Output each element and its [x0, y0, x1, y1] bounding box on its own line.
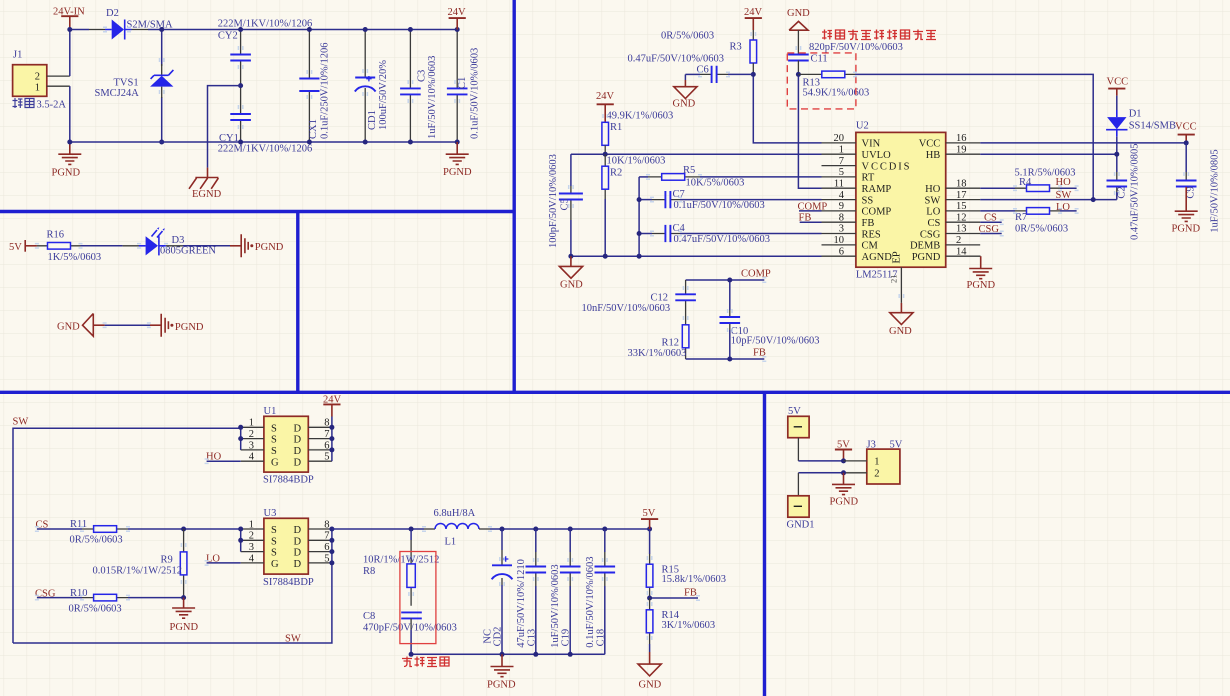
svg-text:CSG: CSG	[920, 229, 941, 240]
svg-text:5V: 5V	[9, 242, 22, 253]
junction J3 pin1	[841, 458, 846, 463]
junction dots rail/TVS	[159, 27, 164, 32]
svg-text:D1: D1	[1129, 109, 1142, 120]
resistor R8 (snubber)	[363, 529, 439, 606]
wire CS pin12	[980, 221, 1002, 223]
svg-text:100uF/50V/20%: 100uF/50V/20%	[378, 60, 389, 130]
svg-text:HO: HO	[925, 184, 941, 195]
svg-text:S: S	[271, 423, 277, 434]
wire COMP pin9	[799, 210, 822, 212]
svg-text:D: D	[294, 457, 302, 468]
svg-text:PGND: PGND	[1172, 223, 1201, 234]
TVS diode TVS1	[95, 64, 174, 99]
svg-text:C3: C3	[417, 70, 428, 82]
wire R13 to SW	[855, 74, 1093, 199]
svg-text:FB: FB	[684, 588, 697, 599]
power port 24V (U1)	[323, 394, 342, 416]
capacitor C8 (snubber)	[363, 611, 457, 654]
wire GND to PGND	[105, 324, 150, 326]
svg-text:0.1uF/50V/10%/0603: 0.1uF/50V/10%/0603	[674, 200, 765, 211]
svg-text:15.8k/1%/0603: 15.8k/1%/0603	[662, 574, 726, 585]
capacitor C18	[585, 529, 615, 654]
ground EGND	[189, 168, 222, 201]
mosfet U3 SI7884BDP	[241, 508, 332, 588]
svg-text:GND: GND	[787, 8, 810, 19]
svg-text:U2: U2	[856, 121, 869, 132]
svg-text:U1: U1	[264, 406, 277, 417]
ground PGND (pin14)	[967, 256, 996, 291]
svg-text:VCC: VCC	[919, 139, 941, 150]
svg-text:2: 2	[249, 429, 254, 440]
wire 24V-IN rail top	[70, 29, 89, 31]
ground PGND (J3)	[830, 473, 859, 508]
wire HB rail pin19	[980, 153, 1117, 155]
svg-text:SS: SS	[862, 195, 874, 206]
ground PGND (output)	[487, 654, 516, 690]
capacitor C7	[639, 189, 821, 211]
svg-text:470pF/50V/10%/0603: 470pF/50V/10%/0603	[363, 623, 457, 634]
svg-text:24V: 24V	[744, 7, 763, 18]
wire output gnd rail	[411, 653, 605, 655]
svg-text:3: 3	[249, 542, 254, 553]
svg-text:PGND: PGND	[255, 242, 284, 253]
svg-text:10nF/50V/10%/0603: 10nF/50V/10%/0603	[582, 303, 671, 314]
resistor R11	[37, 519, 241, 546]
capacitor CX1	[299, 30, 330, 143]
mosfet U1 SI7884BDP	[241, 406, 332, 486]
svg-text:17: 17	[956, 190, 967, 201]
svg-text:SW: SW	[1056, 190, 1072, 201]
svg-text:TVS1: TVS1	[114, 77, 139, 88]
svg-text:GND: GND	[889, 326, 912, 337]
svg-text:J3: J3	[867, 439, 876, 450]
svg-text:R11: R11	[70, 519, 87, 530]
svg-text:CM: CM	[862, 241, 879, 252]
power port 24V-IN	[53, 7, 85, 30]
svg-text:9: 9	[839, 201, 844, 212]
capacitor C10	[720, 280, 820, 359]
junction R9/R10	[181, 595, 186, 600]
svg-text:SW: SW	[925, 195, 941, 206]
svg-text:S2M/SMA: S2M/SMA	[127, 19, 174, 30]
junction SW/R13	[1091, 197, 1096, 202]
capacitor C2	[1107, 143, 1141, 240]
junction FB divider	[647, 596, 652, 601]
junction at J1 ground	[67, 140, 72, 145]
svg-text:C4: C4	[673, 223, 686, 234]
svg-text:C7: C7	[673, 189, 685, 200]
wire U3 right bus	[331, 529, 333, 563]
junction dots filter caps	[307, 27, 312, 32]
svg-text:SI7884BDP: SI7884BDP	[263, 475, 314, 486]
svg-text:SW: SW	[13, 416, 29, 427]
wire bottom rail	[70, 141, 457, 143]
resistor R10	[37, 588, 184, 615]
capacitor C19	[550, 529, 580, 654]
svg-text:4: 4	[249, 452, 255, 463]
svg-text:13: 13	[956, 224, 967, 235]
svg-text:GND: GND	[560, 280, 583, 291]
svg-text:15: 15	[956, 201, 967, 212]
svg-text:VCC: VCC	[1107, 77, 1129, 88]
svg-text:4: 4	[249, 553, 255, 564]
capacitor C3	[400, 30, 438, 143]
junction dots AGND rail	[568, 254, 573, 259]
resistor R1	[602, 110, 673, 154]
wire VCC rail pin16	[980, 142, 1186, 144]
svg-text:24V: 24V	[596, 91, 615, 102]
svg-text:7: 7	[324, 531, 329, 542]
capacitor CD2 (polarized, NC)	[482, 529, 512, 654]
svg-text:0.015R/1%/1W/2512: 0.015R/1%/1W/2512	[93, 565, 183, 576]
svg-text:CD1: CD1	[367, 110, 378, 130]
power port 24V (filter)	[448, 7, 467, 29]
svg-text:RT: RT	[862, 173, 875, 184]
svg-text:G: G	[271, 457, 279, 468]
svg-text:PGND: PGND	[175, 322, 204, 333]
svg-text:10K/5%/0603: 10K/5%/0603	[686, 178, 745, 189]
svg-text:6: 6	[324, 542, 329, 553]
svg-text:LO: LO	[926, 207, 940, 218]
svg-text:0R/5%/0603: 0R/5%/0603	[70, 535, 123, 546]
svg-text:GND: GND	[639, 679, 662, 690]
power port VCC (D1 top)	[1107, 77, 1129, 111]
svg-text:4: 4	[839, 190, 845, 201]
svg-text:5: 5	[324, 553, 329, 564]
svg-text:UVLO: UVLO	[862, 150, 892, 161]
svg-text:0R/5%/0603: 0R/5%/0603	[69, 603, 122, 614]
resistor R2	[602, 154, 666, 256]
test point GND1	[787, 473, 815, 531]
svg-text:C12: C12	[651, 293, 669, 304]
annotation 斜坡电阻和斜坡电容	[822, 30, 936, 40]
wire TP5V to J3 pin1	[798, 460, 843, 462]
diode D1	[1106, 109, 1176, 137]
svg-text:3: 3	[249, 440, 254, 451]
svg-text:0R/5%/0603: 0R/5%/0603	[1015, 223, 1068, 234]
svg-text:R16: R16	[47, 230, 65, 241]
svg-text:D3: D3	[172, 235, 185, 246]
power port GND (C6)	[673, 74, 698, 109]
svg-text:CSG: CSG	[979, 224, 1000, 235]
capacitor C5	[548, 154, 583, 256]
connector J3	[844, 439, 903, 484]
svg-text:S: S	[271, 525, 277, 536]
wire UVLO row	[571, 153, 822, 155]
wire FB pin8	[800, 221, 822, 223]
capacitor CY2	[218, 19, 313, 86]
svg-text:19: 19	[956, 144, 967, 155]
svg-text:1: 1	[839, 144, 844, 155]
svg-text:EP: EP	[892, 251, 903, 263]
wire J1 pin2 up	[69, 30, 71, 77]
wire U1 right bus	[331, 417, 333, 462]
svg-text:R2: R2	[610, 167, 622, 178]
svg-text:PGND: PGND	[912, 252, 941, 263]
svg-text:PGND: PGND	[170, 622, 199, 633]
wire D1 to HB/C2	[1116, 137, 1118, 172]
svg-text:CS: CS	[927, 218, 940, 229]
svg-text:3K/1%/0603: 3K/1%/0603	[662, 620, 716, 631]
power port 5V (output)	[641, 508, 658, 529]
svg-text:SMCJ24A: SMCJ24A	[95, 88, 140, 99]
svg-text:R1: R1	[610, 122, 622, 133]
svg-text:GND: GND	[673, 98, 696, 109]
svg-text:C6: C6	[697, 65, 709, 76]
svg-text:0.1uF/50V/10%/0603: 0.1uF/50V/10%/0603	[469, 48, 480, 139]
svg-text:3: 3	[839, 224, 844, 235]
power port 5V (LED)	[9, 240, 37, 253]
wire to EGND	[208, 86, 241, 168]
svg-text:SI7884BDP: SI7884BDP	[263, 577, 314, 588]
wire SW rail pin17	[980, 199, 1117, 201]
ground PGND (filter)	[443, 142, 472, 178]
junction dots COMP subnet	[727, 278, 732, 283]
capacitor C4	[639, 223, 821, 245]
svg-text:COMP: COMP	[741, 269, 771, 280]
svg-text:5V: 5V	[643, 508, 656, 519]
wire TPGND1 to J3 pin2	[798, 472, 843, 474]
svg-text:21: 21	[889, 275, 899, 284]
svg-text:HO: HO	[1056, 177, 1072, 188]
wire RAMP column	[798, 74, 821, 188]
wire output rail (SW node to 5V)	[332, 528, 424, 530]
port GND (arrow)	[57, 314, 105, 337]
power port GND (C11 top)	[787, 8, 810, 54]
svg-text:7: 7	[324, 429, 329, 440]
svg-text:CS: CS	[984, 213, 997, 224]
svg-text:D: D	[294, 446, 302, 457]
svg-text:GND: GND	[57, 322, 80, 333]
svg-text:1: 1	[249, 418, 254, 429]
svg-text:S: S	[271, 435, 277, 446]
svg-text:CY2: CY2	[218, 31, 238, 42]
svg-text:1: 1	[874, 457, 879, 468]
svg-text:U3: U3	[264, 508, 277, 519]
svg-text:G: G	[271, 559, 279, 570]
svg-text:SW: SW	[285, 634, 301, 645]
svg-text:C18: C18	[595, 629, 606, 647]
svg-text:PGND: PGND	[443, 167, 472, 178]
svg-text:1: 1	[35, 82, 40, 93]
svg-text:2: 2	[874, 469, 879, 480]
svg-text:6.8uH/8A: 6.8uH/8A	[434, 508, 476, 519]
wire LO to U3 gate	[207, 562, 241, 564]
svg-text:RES: RES	[862, 229, 881, 240]
svg-text:8: 8	[324, 519, 329, 530]
svg-text:L1: L1	[445, 537, 457, 548]
svg-text:R9: R9	[161, 555, 173, 566]
svg-text:S: S	[271, 548, 277, 559]
junction R1/R2	[603, 152, 608, 157]
ground PGND (C9)	[1172, 187, 1201, 234]
power port PGND (GND row)	[150, 314, 204, 337]
capacitor CD1 (polarized)	[355, 30, 389, 143]
wire L1 to 5V rail	[490, 528, 650, 530]
svg-text:20: 20	[834, 133, 845, 144]
svg-text:10R/1%/1W/2512: 10R/1%/1W/2512	[363, 554, 439, 565]
test point 5V	[788, 406, 809, 461]
capacitor C9	[1176, 143, 1221, 233]
svg-text:10pF/50V/10%/0603: 10pF/50V/10%/0603	[731, 336, 820, 347]
junction R9 top	[181, 527, 186, 532]
svg-text:C19: C19	[561, 629, 572, 647]
svg-text:VCC: VCC	[1175, 121, 1197, 132]
svg-text:5: 5	[324, 452, 329, 463]
svg-text:FB: FB	[862, 218, 875, 229]
svg-text:D: D	[294, 536, 302, 547]
svg-text:DEMB: DEMB	[910, 241, 940, 252]
power port GND (divider)	[638, 644, 662, 690]
power port GND (EP)	[889, 303, 913, 337]
svg-text:1uF/50V/10%/0603: 1uF/50V/10%/0603	[427, 56, 438, 139]
power port PGND (LED row)	[230, 234, 284, 257]
svg-text:S: S	[271, 446, 277, 457]
svg-text:R3: R3	[730, 42, 742, 53]
diode D2	[105, 8, 173, 40]
svg-text:D: D	[294, 435, 302, 446]
svg-text:PGND: PGND	[967, 280, 996, 291]
svg-text:1: 1	[249, 519, 254, 530]
svg-text:PGND: PGND	[487, 680, 516, 691]
wire rail after D2	[132, 29, 149, 31]
svg-text:0.47uF/50V/10%/0603: 0.47uF/50V/10%/0603	[628, 54, 725, 65]
svg-text:3.5-2A: 3.5-2A	[37, 99, 67, 110]
svg-text:5V: 5V	[890, 439, 903, 450]
svg-text:0.1uF/50V/10%/0603: 0.1uF/50V/10%/0603	[585, 557, 596, 648]
svg-text:2: 2	[35, 71, 40, 82]
svg-text:33K/1%/0603: 33K/1%/0603	[628, 348, 687, 359]
svg-text:J1: J1	[13, 50, 22, 61]
svg-text:0.1uF/250V/10%/1206: 0.1uF/250V/10%/1206	[319, 42, 330, 139]
wire AGND rail	[571, 255, 822, 257]
wire FB subnet bottom	[686, 358, 765, 360]
svg-text:C13: C13	[526, 629, 537, 647]
svg-text:12: 12	[956, 212, 967, 223]
comment 绿色3.5-2A (green connector)	[13, 98, 35, 108]
wire U3 left bus	[240, 529, 242, 552]
svg-text:54.9K/1%/0603: 54.9K/1%/0603	[803, 88, 870, 99]
svg-text:C11: C11	[811, 54, 828, 65]
wire D3 to PGND port	[166, 245, 183, 247]
svg-text:CD2: CD2	[493, 627, 504, 647]
svg-text:D2: D2	[106, 8, 119, 19]
svg-text:C1: C1	[457, 77, 468, 89]
junction at 24V-IN	[67, 27, 72, 32]
svg-text:1uF/50V/10%/0603: 1uF/50V/10%/0603	[550, 564, 561, 647]
LED D3	[139, 227, 217, 256]
resistor R15	[646, 529, 726, 598]
svg-text:6: 6	[839, 246, 844, 257]
junction dots CY column	[238, 27, 243, 32]
resistor R3	[661, 7, 763, 74]
junction C6/R3	[751, 72, 756, 77]
svg-text:16: 16	[956, 133, 967, 144]
resistor R14	[646, 598, 715, 644]
svg-text:10K/1%/0603: 10K/1%/0603	[607, 155, 666, 166]
wire FB row	[650, 597, 698, 599]
svg-text:49.9K/1%/0603: 49.9K/1%/0603	[607, 110, 674, 121]
svg-text:6: 6	[324, 440, 329, 451]
junction HB/D1	[1114, 152, 1119, 157]
svg-text:SS14/SMB: SS14/SMB	[1129, 121, 1176, 132]
svg-text:8: 8	[839, 212, 844, 223]
inductor L1	[424, 508, 490, 548]
capacitor C1	[447, 30, 480, 143]
svg-text:C8: C8	[363, 611, 375, 622]
resistor R16	[37, 230, 101, 263]
svg-text:C9: C9	[1186, 186, 1197, 198]
svg-text:7: 7	[839, 156, 844, 167]
resistor R5	[639, 165, 821, 188]
svg-text:CY1: CY1	[219, 133, 239, 144]
resistor R13	[798, 71, 869, 99]
svg-text:R4: R4	[1019, 177, 1032, 188]
svg-text:S: S	[271, 536, 277, 547]
svg-text:D: D	[294, 525, 302, 536]
svg-text:820pF/50V/10%/0603: 820pF/50V/10%/0603	[809, 42, 903, 53]
svg-text:18: 18	[956, 178, 967, 189]
svg-text:1K/5%/0603: 1K/5%/0603	[48, 252, 102, 263]
svg-text:8: 8	[324, 418, 329, 429]
svg-text:222M/1KV/10%/1206: 222M/1KV/10%/1206	[218, 144, 313, 155]
op-amp/controller U2 LM25117	[822, 121, 981, 303]
wire SW loop	[13, 428, 332, 643]
svg-text:CX1: CX1	[308, 119, 319, 139]
wire COMP subnet top	[686, 279, 765, 281]
capacitor CY1	[218, 86, 313, 155]
svg-text:VCCDIS: VCCDIS	[862, 161, 912, 172]
svg-text:222M/1KV/10%/1206: 222M/1KV/10%/1206	[218, 19, 313, 30]
power port GND (AGND)	[559, 256, 583, 290]
svg-text:VIN: VIN	[862, 139, 881, 150]
svg-text:0.47uF/50V/10%/0805: 0.47uF/50V/10%/0805	[1130, 143, 1141, 240]
svg-text:GND1: GND1	[787, 520, 815, 531]
svg-text:PGND: PGND	[52, 168, 81, 179]
svg-text:100pF/50V/10%/0603: 100pF/50V/10%/0603	[548, 154, 559, 248]
connector J1	[13, 50, 70, 97]
svg-text:14: 14	[956, 246, 967, 257]
wire U1 left bus	[240, 427, 242, 450]
svg-text:HB: HB	[926, 150, 941, 161]
svg-text:D: D	[294, 548, 302, 559]
wire HO to U1 gate	[207, 460, 241, 462]
svg-text:0805GREEN: 0805GREEN	[160, 245, 216, 256]
svg-text:2: 2	[249, 531, 254, 542]
svg-text:D: D	[294, 559, 302, 570]
capacitor C6	[628, 54, 754, 84]
svg-text:RAMP: RAMP	[862, 184, 892, 195]
svg-text:R5: R5	[683, 165, 695, 176]
junction J3 pin2	[841, 470, 846, 475]
wire RT/SS/RES left vertical	[638, 177, 640, 256]
wire R16 to D3	[81, 245, 123, 247]
junction dots output rail	[409, 527, 414, 532]
svg-text:R10: R10	[70, 588, 88, 599]
resistor R12	[628, 310, 689, 359]
svg-text:2: 2	[956, 235, 961, 246]
svg-text:R8: R8	[363, 566, 375, 577]
wire J1 pin1 down	[69, 86, 71, 142]
annotation 缓冲元件	[402, 657, 449, 667]
svg-text:D: D	[294, 423, 302, 434]
svg-text:5: 5	[839, 167, 844, 178]
svg-text:24V: 24V	[448, 7, 467, 18]
svg-text:1uF/50V/10%/0805: 1uF/50V/10%/0805	[1210, 149, 1221, 232]
power port 24V (R1)	[596, 91, 615, 122]
svg-text:47uF/50V/10%/1210: 47uF/50V/10%/1210	[516, 559, 527, 648]
capacitor C11	[788, 42, 903, 74]
